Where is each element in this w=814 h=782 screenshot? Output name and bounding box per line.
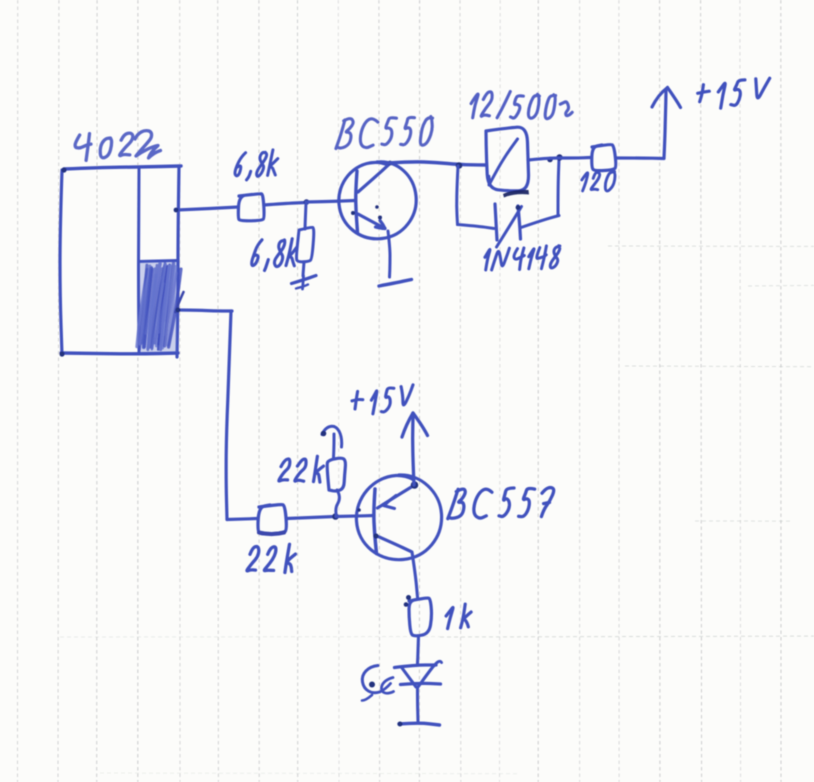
+15V arrow (Q2 emitter) xyxy=(402,413,428,485)
ground below LED xyxy=(398,722,440,727)
node relay right xyxy=(528,154,563,162)
wire node to R3 xyxy=(560,156,590,160)
wire 4027 pin2 down to R4 xyxy=(176,308,258,520)
label 6,8k (R2) xyxy=(252,239,297,271)
label 6,8k (R1) xyxy=(235,150,278,180)
label 22k (R4) xyxy=(247,544,296,572)
diode D1 1N4148 xyxy=(495,204,522,247)
node relay left xyxy=(456,162,463,169)
wire 4027 pin to R1 xyxy=(174,207,238,212)
label 1N4148 xyxy=(485,246,560,270)
transistor Q1 BC550 xyxy=(339,161,416,286)
label +15V (top) xyxy=(698,78,770,108)
resistor R5 22k vertical + arrow to +15V xyxy=(321,426,346,516)
label 12/500r xyxy=(471,92,572,119)
resistor R2 6.8k pulldown xyxy=(297,203,314,276)
node B junction xyxy=(332,513,339,520)
label 120 xyxy=(582,172,615,191)
resistor R1 6.8k body xyxy=(238,194,264,221)
label BC557 xyxy=(448,488,554,519)
node A junction xyxy=(304,199,355,205)
wire diode to right node xyxy=(521,159,559,228)
LED D2 xyxy=(395,661,442,721)
relay K1 coil 12V/500R xyxy=(486,127,529,197)
resistor R6 1k body xyxy=(404,595,432,636)
wire Q1 collector to relay xyxy=(389,162,485,165)
label BC550 xyxy=(336,117,433,149)
wire loop left xyxy=(457,166,494,229)
wire R6 to LED xyxy=(418,636,419,664)
wire R3 to +15V riser xyxy=(617,156,664,160)
resistor R4 22k body xyxy=(258,505,286,534)
ground below R2 xyxy=(292,276,317,290)
LED light arrows xyxy=(362,666,394,701)
hatched block inside 4027 xyxy=(137,262,181,352)
IC U1 4027 body xyxy=(59,166,181,357)
label 4027 xyxy=(75,131,160,161)
wire node B to Q2 base xyxy=(336,516,374,517)
transistor Q2 BC557 xyxy=(356,475,441,597)
+15V arrow (top right) xyxy=(652,88,681,159)
wire R4 to node B xyxy=(287,517,335,519)
wire R1 to node A xyxy=(264,203,306,206)
resistor R3 120 body xyxy=(592,145,616,171)
stray pin slash xyxy=(176,292,184,312)
label 1k xyxy=(446,604,471,629)
label +15V (middle) xyxy=(352,385,413,414)
label 22k (R5) xyxy=(279,456,324,482)
